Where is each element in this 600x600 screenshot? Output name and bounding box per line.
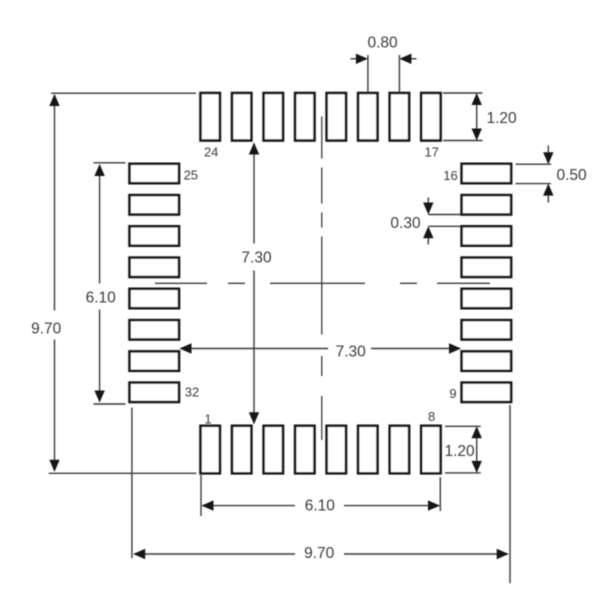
pad pin 31 (left column) bbox=[130, 351, 180, 370]
dim 9.70 bottom left arrow bbox=[133, 549, 145, 559]
dim 0.30 extension line upper bbox=[428, 214, 460, 216]
pad pin 29 (left column) bbox=[130, 289, 180, 308]
pad pin 1 (bottom row) bbox=[201, 426, 220, 474]
pad pin 4 (bottom row) bbox=[295, 426, 314, 474]
pad pin 12 (right column) bbox=[462, 289, 512, 308]
dim 7.30 horizontal left arrow bbox=[180, 343, 192, 353]
dim 9.70 left dimension line lower segment bbox=[54, 340, 56, 471]
svg-text:0.30: 0.30 bbox=[390, 215, 421, 232]
dim 0.50 extension line lower bbox=[516, 183, 552, 185]
svg-text:1.20: 1.20 bbox=[445, 443, 476, 460]
pad pin 20 (top row) bbox=[327, 93, 346, 141]
pad pin 2 (bottom row) bbox=[232, 426, 251, 474]
pad pin 9 (right column) bbox=[462, 383, 512, 402]
pad pin 27 (left column) bbox=[130, 226, 180, 245]
dim 9.70 left extension line lower bbox=[49, 472, 197, 474]
pad pin 22 (top row) bbox=[264, 93, 283, 141]
dim 9.70 bottom right arrow bbox=[497, 549, 509, 559]
svg-text:7.30: 7.30 bbox=[241, 250, 272, 267]
dim 6.10 left down arrow bbox=[94, 391, 104, 403]
dim 6.10 left dimension line upper segment bbox=[99, 165, 101, 284]
dim 1.20 bottom extension line upper bbox=[445, 425, 481, 427]
svg-text:6.10: 6.10 bbox=[305, 497, 336, 514]
pad pin 14 (right column) bbox=[462, 226, 512, 245]
dim 9.70 bottom extension line right bbox=[509, 405, 511, 583]
pad pin 3 (bottom row) bbox=[264, 426, 283, 474]
dim 0.80 left arrow bbox=[351, 58, 367, 60]
dim 6.10 left extension line upper bbox=[94, 162, 126, 164]
dim 0.50 upper arrow bbox=[547, 146, 549, 164]
dim 6.10 bottom left arrow bbox=[202, 500, 214, 510]
dim 9.70 left up arrow bbox=[49, 94, 59, 106]
dim 7.30 horizontal dimension line left segment bbox=[181, 348, 329, 350]
dim 7.30 horizontal dimension line right segment bbox=[371, 348, 460, 350]
pad pin 6 (bottom row) bbox=[358, 426, 377, 474]
dim 6.10 left up arrow bbox=[94, 164, 104, 176]
dim 9.70 bottom dimension line left segment bbox=[134, 553, 295, 555]
dim 6.10 bottom extension line right bbox=[439, 477, 441, 511]
dim 0.30 lower arrow bbox=[427, 228, 429, 245]
svg-text:9.70: 9.70 bbox=[31, 321, 62, 338]
pad pin 13 (right column) bbox=[462, 258, 512, 277]
pad pin 23 (top row) bbox=[232, 93, 251, 141]
dim 1.20 bottom up arrow bbox=[472, 426, 482, 438]
dim 7.30 vertical dimension line upper segment bbox=[253, 144, 255, 244]
pad pin 7 (bottom row) bbox=[390, 426, 409, 474]
dim 9.70 bottom dimension line right segment bbox=[344, 553, 508, 555]
dim 1.20 bottom extension line lower bbox=[445, 472, 481, 474]
pad pin 8 (bottom row) bbox=[421, 426, 440, 474]
dim 1.20 bottom dimension line bbox=[476, 427, 478, 472]
pad pin 25 (left column) bbox=[130, 164, 180, 183]
dim 1.20 bottom down arrow bbox=[472, 461, 482, 473]
svg-text:8: 8 bbox=[428, 409, 435, 424]
svg-text:32: 32 bbox=[185, 385, 199, 400]
dim 0.80 extension line left bbox=[367, 55, 369, 92]
dim 7.30 vertical down arrow bbox=[249, 412, 259, 424]
pad pin 18 (top row) bbox=[390, 93, 409, 141]
dim 6.10 left dimension line lower segment bbox=[99, 310, 101, 402]
pad pin 32 (left column) bbox=[130, 383, 180, 402]
svg-text:0.80: 0.80 bbox=[368, 35, 399, 52]
pad pin 26 (left column) bbox=[130, 195, 180, 214]
pad pin 11 (right column) bbox=[462, 320, 512, 339]
dim 9.70 bottom extension line left bbox=[131, 408, 133, 559]
pad pin 10 (right column) bbox=[462, 351, 512, 370]
dim 0.30 upper arrow bbox=[427, 198, 429, 214]
vertical centerline (dashed) bbox=[321, 117, 323, 441]
pad pin 15 (right column) bbox=[462, 195, 512, 214]
dim 9.70 left down arrow bbox=[49, 460, 59, 472]
svg-text:6.10: 6.10 bbox=[86, 289, 117, 306]
dim 6.10 bottom dimension line right segment bbox=[344, 505, 439, 507]
svg-text:25: 25 bbox=[184, 167, 198, 182]
pad pin 28 (left column) bbox=[130, 258, 180, 277]
pad pin 24 (top row) bbox=[201, 93, 220, 141]
dim 1.20 top extension line lower bbox=[443, 140, 483, 142]
horizontal centerline (dashed) bbox=[155, 282, 490, 284]
dim 6.10 bottom dimension line left segment bbox=[203, 505, 296, 507]
pad pin 21 (top row) bbox=[295, 93, 314, 141]
dim 0.50 lower arrow bbox=[547, 185, 549, 203]
pad pin 16 (right column) bbox=[462, 164, 512, 183]
dim 9.70 left dimension line upper segment bbox=[54, 95, 56, 311]
dim 0.80 right arrow bbox=[401, 58, 417, 60]
svg-text:1.20: 1.20 bbox=[487, 110, 518, 127]
dim 0.30 extension line lower bbox=[428, 225, 460, 227]
svg-text:16: 16 bbox=[443, 168, 457, 183]
pad pin 19 (top row) bbox=[358, 93, 377, 141]
svg-text:1: 1 bbox=[204, 411, 211, 426]
svg-text:7.30: 7.30 bbox=[336, 344, 367, 361]
dim 6.10 bottom right arrow bbox=[428, 500, 440, 510]
svg-text:17: 17 bbox=[424, 144, 438, 159]
pad pin 30 (left column) bbox=[130, 320, 180, 339]
dim 1.20 top extension line upper bbox=[443, 92, 483, 94]
dim 1.20 top dimension line bbox=[476, 94, 478, 140]
svg-text:9.70: 9.70 bbox=[304, 545, 335, 562]
svg-text:0.50: 0.50 bbox=[557, 167, 588, 184]
svg-text:24: 24 bbox=[204, 145, 218, 160]
dim 7.30 horizontal right arrow bbox=[449, 343, 461, 353]
dim 7.30 vertical up arrow bbox=[249, 143, 259, 155]
dim 0.80 extension line right bbox=[398, 55, 400, 92]
dim 0.50 extension line upper bbox=[516, 163, 552, 165]
dim 1.20 top down arrow bbox=[472, 129, 482, 141]
dim 9.70 left extension line upper bbox=[51, 92, 196, 94]
dim 1.20 top up arrow bbox=[472, 93, 482, 105]
svg-text:9: 9 bbox=[449, 386, 456, 401]
pad pin 17 (top row) bbox=[421, 93, 440, 141]
dim 7.30 vertical dimension line lower segment bbox=[253, 271, 255, 424]
dim 6.10 bottom extension line left bbox=[200, 475, 202, 516]
dim 6.10 left extension line lower bbox=[94, 403, 126, 405]
pad pin 5 (bottom row) bbox=[327, 426, 346, 474]
